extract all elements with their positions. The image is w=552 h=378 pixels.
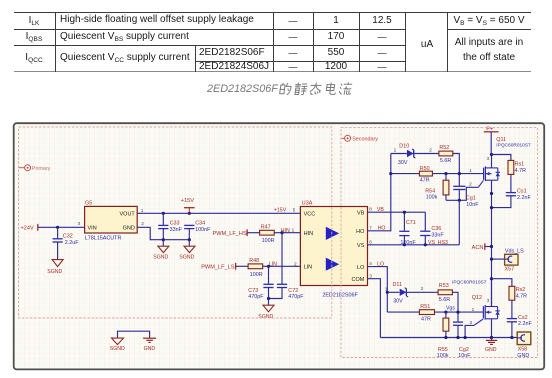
svg-text:2: 2: [421, 286, 424, 291]
buffer triangle high side: [326, 227, 339, 240]
svg-text:C32: C32: [63, 233, 73, 239]
svg-text:Secondary: Secondary: [352, 137, 378, 143]
svg-text:R47: R47: [261, 225, 271, 231]
junction Q12 source: [490, 336, 493, 339]
ground SGND at C34: [179, 240, 195, 261]
svg-text:R51: R51: [420, 304, 430, 310]
wire ground rail: [380, 337, 517, 339]
junction R55 bottom: [444, 336, 447, 339]
horizontal lines: [14, 12, 531, 13]
svg-text:1: 1: [472, 307, 475, 312]
svg-text:2: 2: [294, 261, 297, 266]
buffer triangle low side: [326, 258, 339, 271]
caption: 2ED2182S06F + chinese glyphs drawn as svg: [207, 84, 278, 95]
svg-text:C36: C36: [431, 226, 441, 232]
junction at X57 tap: [490, 258, 493, 261]
junction at Cs1 return: [490, 206, 493, 209]
wire R50 row: [391, 173, 420, 175]
svg-text:8: 8: [369, 207, 372, 212]
wire drain row to snubber Rs2: [492, 279, 512, 287]
power port +24V: [21, 224, 38, 232]
wire COM to ground rail: [368, 279, 381, 338]
svg-text:GND: GND: [485, 347, 497, 353]
wire R52 corner down to gate node and Cg1: [453, 154, 460, 186]
svg-text:C72: C72: [288, 288, 298, 294]
primary side dashed boundary: [19, 127, 332, 318]
power port +15V: [181, 198, 195, 214]
svg-text:HO: HO: [378, 226, 386, 232]
resistor R55 100k pulldown: [437, 312, 449, 359]
svg-text:1: 1: [292, 228, 295, 233]
svg-text:1: 1: [141, 208, 144, 213]
junction at C32: [56, 226, 59, 229]
connector X58 GND: [517, 332, 531, 359]
svg-text:VOUT: VOUT: [120, 212, 136, 218]
svg-text:U3A: U3A: [302, 200, 313, 206]
junction at C34 top: [188, 212, 191, 215]
svg-text:5.6R: 5.6R: [439, 297, 450, 303]
voltage regulator G5 L78L15ACUTR: [85, 200, 138, 241]
input port PWM_LF_HS: [213, 229, 248, 237]
secondary boundary label: [341, 135, 378, 142]
svg-text:GND: GND: [144, 346, 156, 352]
svg-text:2ED2182S06F: 2ED2182S06F: [322, 292, 358, 298]
wire D11 to R53: [406, 291, 438, 293]
wire R51 row: [387, 311, 419, 313]
wire R48 to LIN pin 2: [263, 265, 301, 267]
wire port to R47: [247, 232, 260, 234]
resistor R52 5.6R: [439, 145, 453, 164]
junction at LIN / C73 branch: [267, 265, 270, 268]
svg-text:4.7R: 4.7R: [515, 168, 526, 174]
svg-text:3: 3: [487, 298, 490, 303]
port ACN: [472, 243, 492, 251]
svg-text:4.7R: 4.7R: [516, 294, 527, 300]
svg-text:Cs2: Cs2: [518, 315, 528, 321]
junction at D11 row tee: [386, 291, 389, 294]
svg-text:100k: 100k: [437, 353, 449, 359]
junction at gate node: [458, 172, 461, 175]
snubber resistor Rs1 4.7R: [508, 160, 526, 174]
svg-text:LIN: LIN: [304, 265, 313, 271]
svg-text:R52: R52: [439, 145, 449, 151]
snubber capacitor Cs1 2.2nF: [506, 189, 532, 201]
ground SGND at C33: [153, 240, 169, 261]
svg-text:7: 7: [369, 225, 372, 230]
junction at C36 bottom: [424, 243, 427, 246]
svg-text:SGND: SGND: [179, 255, 194, 261]
svg-text:+24V: +24V: [21, 225, 34, 231]
svg-text:L78L15ACUTR: L78L15ACUTR: [85, 236, 122, 242]
svg-text:LO: LO: [377, 261, 384, 267]
ground GND power earth: [485, 338, 497, 354]
svg-text:47R: 47R: [420, 178, 430, 184]
wire port to R48: [236, 265, 249, 267]
junction at C71 bottom: [403, 243, 406, 246]
junction Cs2 bottom: [510, 336, 513, 339]
svg-text:ACN: ACN: [472, 245, 484, 251]
wire drain row to snubber Rs1: [492, 155, 511, 161]
junction kelvin bottom: [464, 336, 467, 339]
junction at C71 top: [403, 211, 406, 214]
svg-text:33nF: 33nF: [170, 227, 183, 233]
junction at Q11 drain node: [490, 153, 493, 156]
svg-text:LO: LO: [357, 265, 365, 271]
wire VB rail: [368, 211, 426, 213]
rows 3-4: [25, 53, 42, 63]
wire D10 to R52: [414, 153, 439, 155]
svg-text:GND: GND: [517, 353, 529, 359]
resistor R47 100R: [260, 225, 275, 245]
svg-text:2: 2: [469, 182, 472, 187]
svg-text:1: 1: [385, 286, 388, 291]
svg-text:X57: X57: [505, 267, 515, 273]
svg-text:C73: C73: [248, 288, 258, 294]
svg-text:Vds_LS: Vds_LS: [505, 248, 524, 254]
svg-text:Cg2: Cg2: [459, 347, 469, 353]
snubber capacitor Cs2 2.2nF: [507, 315, 533, 327]
zener diode D11 30V: [393, 282, 409, 305]
svg-text:G5: G5: [85, 200, 92, 206]
wire Rs2 to Cs2: [511, 300, 513, 318]
wire HO to gate network riser: [368, 154, 391, 231]
junction at Q12 drain node: [490, 277, 493, 280]
resistor R53 5.6R: [438, 283, 452, 303]
svg-text:1: 1: [394, 147, 397, 152]
svg-text:2: 2: [429, 147, 432, 152]
svg-text:VS: VS: [357, 243, 365, 249]
junction Cg2 bottom: [456, 336, 459, 339]
junction at C33 bottom: [162, 238, 165, 241]
svg-text:R48: R48: [249, 258, 259, 264]
resistor R51 47R: [419, 304, 434, 323]
svg-text:2.2nF: 2.2nF: [518, 321, 532, 327]
svg-text:Cs1: Cs1: [517, 189, 527, 195]
svg-text:SGND: SGND: [47, 269, 62, 275]
svg-text:2.2nF: 2.2nF: [517, 195, 531, 201]
svg-text:VB: VB: [357, 211, 365, 217]
svg-text:Vgs: Vgs: [446, 306, 455, 312]
svg-text:SGND: SGND: [153, 255, 168, 261]
junction at R55 top: [444, 311, 447, 314]
svg-text:Rs1: Rs1: [515, 162, 525, 168]
wire R47 to HIN pin 1: [274, 232, 300, 234]
junction at filter ground: [267, 297, 270, 300]
svg-text:2.2uF: 2.2uF: [65, 240, 79, 246]
wire Cs1 to switch node: [492, 196, 511, 208]
svg-text:Rs2: Rs2: [516, 287, 526, 293]
bootstrap capacitor C36 33nF: [420, 212, 444, 245]
svg-text:IPQC60R010S7: IPQC60R010S7: [452, 280, 487, 286]
svg-text:47R: 47R: [421, 317, 431, 323]
svg-text:C34: C34: [195, 221, 205, 227]
mosfet Q12 IPQC60R010S7: [452, 279, 500, 338]
resistor R50 47R: [419, 166, 432, 184]
svg-text:PWM_LF_HS: PWM_LF_HS: [213, 231, 247, 237]
svg-text:3: 3: [487, 156, 490, 161]
wire D10 row: [391, 153, 407, 155]
svg-text:IPQC60R010S7: IPQC60R010S7: [496, 143, 531, 149]
svg-text:R50: R50: [420, 166, 430, 172]
ground SGND at C32: [47, 260, 63, 275]
svg-text:470pF: 470pF: [248, 294, 264, 300]
resistor R48 100R: [248, 258, 263, 278]
svg-text:R53: R53: [439, 283, 449, 289]
svg-text:HIN: HIN: [304, 231, 314, 237]
junction at ACN node: [490, 245, 493, 248]
capacitor C34: [184, 221, 211, 240]
svg-text:+15V: +15V: [181, 198, 194, 204]
svg-text:R55: R55: [438, 347, 448, 353]
junction at R54 top: [444, 172, 447, 175]
row 1: [29, 16, 40, 26]
wire kelvin return rail: [446, 187, 478, 200]
junction at R50 row tee: [389, 172, 392, 175]
svg-text:C71: C71: [406, 220, 416, 226]
svg-text:10nF: 10nF: [458, 353, 471, 359]
resistor R54 100k pulldown: [425, 174, 449, 201]
gate driver U3A 2ED2182S06F: [300, 200, 367, 298]
wire R51 to Q12 gate: [435, 311, 483, 313]
wire D11 row: [387, 291, 399, 293]
svg-text:5.6R: 5.6R: [440, 158, 451, 164]
vertical lines: [55, 12, 56, 72]
wire R53 corner down to gate node and Cg2: [452, 292, 458, 321]
svg-text:10nF: 10nF: [466, 202, 479, 208]
svg-text:4: 4: [369, 261, 372, 266]
svg-text:30V: 30V: [393, 299, 403, 305]
svg-text:R54: R54: [425, 188, 435, 194]
svg-text:5: 5: [293, 208, 296, 213]
svg-text:3: 3: [78, 221, 81, 226]
wire LO to low-side gate network: [368, 267, 388, 313]
bootstrap capacitor C71 100nF: [399, 212, 416, 246]
wire R50 to Q11 gate: [432, 173, 484, 175]
junction at Cg1 bottom: [458, 199, 461, 202]
wire +24V to VIN pin 3: [38, 226, 85, 228]
svg-text:VS_HS3: VS_HS3: [428, 240, 448, 246]
junction at Cg2 gate node: [456, 311, 459, 314]
svg-text:100R: 100R: [250, 272, 263, 278]
wire VS pin 6 row: [368, 244, 460, 246]
junction at Q11 source: [490, 192, 493, 195]
svg-text:GND: GND: [123, 225, 135, 231]
capacitor C73 470pF: [248, 266, 273, 300]
svg-text:VCC: VCC: [304, 212, 316, 218]
svg-text:PWM_LF_LS: PWM_LF_LS: [201, 265, 235, 271]
gate-source capacitor Cg2 10nF: [453, 322, 471, 359]
wire VS kelvin drop: [458, 200, 460, 245]
mosfet Q11 IPQC60R010S7: [478, 137, 531, 187]
svg-text:30V: 30V: [398, 160, 408, 166]
svg-text:100R: 100R: [262, 238, 275, 244]
wire Cs2 to ground rail: [511, 322, 513, 337]
svg-text:6: 6: [369, 239, 372, 244]
svg-text:Cg1: Cg1: [466, 196, 476, 202]
wire Q12 kelvin return: [465, 325, 474, 337]
svg-text:LIN: LIN: [269, 262, 277, 268]
svg-text:33nF: 33nF: [431, 233, 444, 239]
capacitor C32: [53, 227, 80, 259]
zener diode D10 30V: [398, 143, 416, 166]
wire GND pin 2 to ground rail: [137, 227, 189, 239]
svg-text:470pF: 470pF: [288, 294, 304, 300]
junction at C33 top: [162, 212, 165, 215]
wire switch node vertical: [491, 180, 493, 306]
svg-text:1: 1: [469, 168, 472, 173]
svg-text:100k: 100k: [426, 195, 438, 201]
svg-text:Q11: Q11: [496, 137, 506, 143]
svg-text:Q12: Q12: [472, 295, 482, 301]
svg-text:VB: VB: [377, 207, 384, 213]
svg-text:2: 2: [470, 320, 473, 325]
gate-source capacitor Cg1 10nF: [453, 186, 479, 208]
wire +15V rail VOUT to VCC: [137, 212, 300, 214]
input port PWM_LF_LS: [201, 263, 235, 271]
svg-text:X58: X58: [518, 347, 528, 353]
ground SGND at input filters: [258, 299, 274, 321]
power port P+: [484, 126, 499, 154]
capacitor C33: [158, 213, 182, 239]
connector X57 Vds_LS: [492, 248, 525, 272]
svg-text:HO: HO: [356, 229, 365, 235]
svg-text:2: 2: [141, 221, 144, 226]
junction at HIN / C72 branch: [280, 231, 283, 234]
svg-text:C33: C33: [170, 221, 180, 227]
net tie SGND to GND: [110, 331, 156, 352]
svg-text:D11: D11: [393, 282, 403, 288]
svg-text:VIN: VIN: [88, 225, 97, 231]
svg-text:+15V: +15V: [274, 208, 287, 214]
junction at C34 bottom: [188, 238, 191, 241]
capacitor C72 470pF (from HIN): [269, 233, 305, 301]
svg-text:100nF: 100nF: [195, 227, 211, 233]
svg-text:3: 3: [369, 273, 372, 278]
row 2: [26, 32, 43, 42]
secondary side dashed boundary: [341, 128, 538, 358]
primary boundary label: [19, 165, 51, 172]
snubber resistor Rs2 4.7R: [509, 286, 527, 300]
svg-text:D10: D10: [399, 143, 409, 149]
svg-text:SGND: SGND: [258, 314, 273, 320]
svg-text:COM: COM: [352, 277, 365, 283]
svg-text:Primary: Primary: [32, 166, 51, 172]
wire Rs1 to Cs1: [510, 174, 512, 192]
svg-text:SGND: SGND: [110, 346, 125, 352]
schematic sheet background: [14, 123, 545, 369]
